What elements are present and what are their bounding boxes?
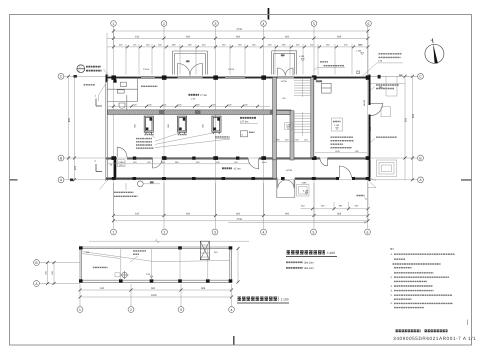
rotated window labels right wall [363,99,372,131]
svg-text:600: 600 [151,287,156,290]
columns on grid A [112,177,370,180]
mezz dims 240 [86,251,219,254]
ramp label and leader [228,196,367,224]
small name-plate box [241,131,255,137]
svg-text:3: 3 [180,308,182,312]
central core: thick duct walls [273,77,295,160]
svg-text:2740: 2740 [237,28,243,31]
fold mark right [461,179,472,180]
porch 1 (grid 2-3) [173,51,208,75]
eave diagonal top-left [99,80,109,102]
svg-text:600: 600 [186,213,191,216]
svg-text:C1515: C1515 [143,68,150,71]
door tag box [118,160,126,167]
mezz right dim [237,247,240,284]
door arc right wall exterior [371,103,391,116]
bottom dim minor row (right section) [301,202,370,210]
small label left of wall [84,84,96,86]
grid bubbles top row [111,21,372,27]
svg-text:600: 600 [285,213,290,216]
text reserved air shaft [114,183,138,196]
vertical grid lines 1-6 (main plan) [114,27,368,229]
mezz left dim [44,261,55,285]
mezz bottom bubbles [77,307,234,313]
level box 1.100 [285,123,293,130]
annotation right: axial fan [371,85,400,90]
steps bottom right exterior [377,160,397,177]
mezz annotation vent [130,251,146,262]
svg-text:6: 6 [368,22,370,26]
svg-text:1: 1 [113,230,115,234]
annotation top right: louver note [361,54,403,78]
leader from callout to wall corner [104,69,110,77]
svg-text:389.34m: 389.34m [304,267,314,270]
section cut mark 1 (left) [95,95,103,107]
mezz outline walls [80,247,232,282]
window C1 mid [225,68,245,79]
mezz cross-circle symbol [115,271,129,279]
left dimension lines (main plan) [67,75,77,182]
svg-text:608: 608 [201,287,206,290]
svg-text:12B6: 12B6 [302,182,308,185]
right top exterior lines [371,74,418,96]
mezz diagonals [82,252,230,262]
north compass [425,39,444,64]
columns on grid C [111,75,370,79]
svg-text:WC2B: WC2B [363,99,366,106]
level mark 4.100 at porch2 [299,55,305,61]
grid bubbles bottom row (main plan) [111,229,371,235]
level box room5-6 [332,118,343,131]
top dimension row bays [107,36,370,40]
svg-text:4.100: 4.100 [299,55,305,58]
fan unit 1 [144,116,153,134]
washroom at left end [107,77,157,110]
mezz left bubbles [34,260,80,287]
svg-text:550: 550 [404,117,407,122]
double door arcs porch 2 [278,68,294,76]
top dimension row total 2740 [112,28,370,33]
svg-text:608: 608 [337,36,342,39]
mezz columns [79,246,232,282]
svg-text:4: 4 [263,230,265,234]
ramp bottom right corner [368,179,376,188]
stair labels [281,80,288,100]
svg-text:WC2B: WC2B [286,169,293,172]
svg-text:WC2B: WC2B [316,80,323,83]
svg-text:WC2B: WC2B [281,80,288,83]
svg-text:830: 830 [412,113,415,118]
svg-text:610: 610 [135,36,140,39]
svg-text:610: 610 [100,287,105,290]
mezz stair hatched [200,241,209,260]
svg-text:600: 600 [236,213,241,216]
svg-text:FM: FM [119,161,122,164]
stair lower flight [294,112,311,136]
mezz label platform [93,266,108,268]
steps right of vestibule [297,185,310,197]
downspout circle bottom-left [137,181,160,187]
svg-text:5: 5 [313,22,315,26]
fan base labels under fans [145,134,188,136]
interior dim row y141 [272,139,311,142]
room label fan room [240,118,258,124]
grid bubbles right C B A [418,73,424,182]
svg-text:1818: 1818 [151,294,157,297]
fold mark bottom [233,336,234,345]
svg-text:1: 1 [113,22,115,26]
svg-text:4: 4 [263,22,265,26]
interior wall (grid B) [106,157,371,159]
svg-text:C1515: C1515 [228,68,235,71]
bottom dim bay row [112,213,370,217]
corridor labels [222,161,268,170]
svg-text:1.100: 1.100 [286,124,292,127]
bottom dim total row [112,218,370,222]
right wall [369,75,371,182]
svg-text:2: 2 [130,308,132,312]
stair upper flight [294,79,311,97]
svg-text:5.: 5. [391,294,393,297]
label fan base [215,137,230,138]
level mark near grid 6 top [356,43,364,55]
annotation above wall 5-6 with bent leader [314,62,345,71]
svg-text:1:100: 1:100 [327,251,335,255]
WC2B label corridor [286,169,293,172]
svg-text:6: 6 [367,230,369,234]
svg-text:3: 3 [214,230,216,234]
detail callout bubble upper left [77,65,102,73]
svg-text:34090055DR6021AR001-7 A 1/1: 34090055DR6021AR001-7 A 1/1 [393,336,476,341]
notes block [390,249,455,308]
interior dim row room5-6 [315,150,367,153]
duct band (hatched) [108,110,292,115]
svg-text:3.: 3. [391,285,393,288]
svg-text:2.: 2. [391,276,393,279]
level mark 0.150 below vestibule [302,182,310,195]
svg-text:1.100: 1.100 [334,124,340,127]
svg-text:225: 225 [74,165,77,170]
double door arcs porch 1 [178,60,203,76]
title 1F plan [286,251,337,270]
svg-text:600: 600 [236,36,241,39]
grid5 wall [311,77,314,157]
upper reference line [89,239,249,243]
svg-text:42.0m: 42.0m [234,167,241,170]
bottom dim extension lines [114,183,369,222]
right dimension lines (main plan) [404,75,416,182]
svg-text:610: 610 [135,213,140,216]
svg-text:3: 3 [215,22,217,26]
svg-text:137.6m: 137.6m [240,121,248,124]
room label equipment room [189,94,207,101]
corridor door arcs on grid B [117,147,327,169]
fan unit 3 [212,116,221,134]
columns on grid B [111,156,370,160]
svg-text:389.34m: 389.34m [304,262,314,265]
svg-text:608: 608 [337,213,342,216]
svg-text:4: 4 [231,308,233,312]
svg-text:600: 600 [186,36,191,39]
bottom wall (grid A) [106,178,371,180]
mezz interior verticals [121,249,208,281]
svg-text:1:100: 1:100 [281,297,289,301]
svg-text:6.: 6. [391,302,393,305]
svg-text:17.3m: 17.3m [200,94,207,97]
svg-text:0.150: 0.150 [303,190,309,193]
window C1 left [141,68,155,79]
grid bubbles left C B A [58,73,64,182]
svg-text:2: 2 [163,22,165,26]
section cut mark 2 (left) [95,160,103,172]
svg-text:1.: 1. [391,253,393,256]
porch 2 (grid 4-5) [272,51,297,75]
annotation right: louver mid [371,137,398,142]
top dim extension lines [107,29,368,75]
electrical room (grid5-6) [316,80,331,93]
svg-text:600: 600 [285,36,290,39]
svg-text:4.: 4. [391,289,393,292]
fold mark top [268,8,270,20]
top wall (grid C) [106,76,371,79]
horizontal grid lines C B A (main plan) [64,76,418,180]
title mezzanine plan [237,297,289,303]
svg-text:5: 5 [313,230,315,234]
bottom-left corner diagonal [100,181,107,190]
corridor dim row [108,161,250,164]
fold mark left [10,179,18,180]
fan vertical dims [134,123,205,127]
title block bottom [393,320,476,342]
wall grid4 B to A [273,160,277,179]
vestibule below A (grid 4-5) [277,180,295,198]
svg-text:1.100: 1.100 [356,49,362,52]
svg-text:2740: 2740 [237,218,243,221]
note text in room [331,137,355,148]
mezz level triangle [146,273,153,278]
interior dim row above duct [108,103,270,108]
fan unit 2 [178,116,187,134]
svg-text:2: 2 [164,230,166,234]
left wall (window band + dark chunks) [106,75,117,182]
svg-text:830: 830 [68,117,71,122]
top dimension row minor [107,43,370,48]
mezz bottom dims [79,284,234,306]
door arc in bottom wall [339,166,351,178]
svg-text:1: 1 [79,308,81,312]
fan leader text block [136,133,230,149]
small vent box on wall C [357,71,360,74]
svg-text:B.A.1: B.A.1 [262,161,268,164]
